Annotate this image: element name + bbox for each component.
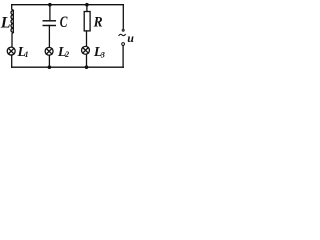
terminal lower — [122, 43, 125, 46]
wire right branch lower lead — [122, 46, 124, 68]
wire lamp L1 to bottom rail — [11, 55, 13, 67]
svg-text:C: C — [60, 14, 68, 31]
wire lamp L2 to bottom rail — [48, 55, 50, 67]
node junction bottom capacitor — [48, 65, 52, 69]
lamp L2 cross — [46, 49, 52, 55]
wire capacitor branch upper lead — [49, 5, 51, 21]
svg-text:L: L — [0, 15, 11, 32]
capacitor C top plate — [43, 20, 55, 22]
wire left branch upper lead — [12, 5, 14, 11]
wire capacitor branch lower lead — [48, 26, 50, 48]
svg-text:1: 1 — [25, 50, 29, 59]
wire right branch upper lead — [122, 5, 124, 29]
node junction top resistor — [85, 3, 89, 7]
inductor L coil — [11, 10, 13, 32]
node junction bottom resistor — [85, 65, 89, 69]
wire bottom rail — [12, 66, 124, 68]
svg-text:3: 3 — [100, 50, 105, 59]
lamp L1 cross — [8, 48, 14, 54]
capacitor C bottom plate — [43, 25, 55, 27]
wire resistor branch lower lead — [86, 31, 88, 46]
resistor R box — [84, 12, 90, 31]
wire lamp L3 to bottom rail — [86, 55, 88, 68]
label ~ of source — [119, 34, 126, 36]
wire resistor branch upper lead — [86, 5, 88, 12]
svg-text:R: R — [93, 14, 103, 31]
svg-text:2: 2 — [64, 50, 69, 59]
svg-text:u: u — [127, 31, 134, 45]
lamp L2 circle — [45, 47, 53, 55]
wire left branch lower lead — [12, 32, 13, 46]
lamp L3 circle — [82, 46, 90, 54]
lamp L1 circle — [7, 47, 15, 55]
wire top rail — [12, 4, 124, 6]
terminal upper — [122, 29, 125, 32]
lamp L3 cross — [83, 48, 89, 54]
node junction top capacitor — [48, 3, 52, 7]
